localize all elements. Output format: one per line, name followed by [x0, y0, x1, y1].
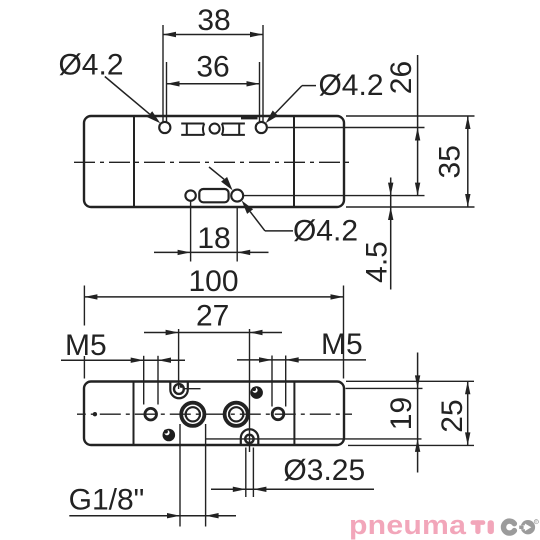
svg-text:pneuma: pneuma — [349, 511, 467, 540]
svg-text:G1/8": G1/8" — [69, 484, 145, 517]
svg-text:25: 25 — [436, 399, 469, 432]
svg-text:Ø4.2: Ø4.2 — [58, 49, 123, 82]
svg-text:27: 27 — [196, 300, 229, 333]
svg-text:18: 18 — [197, 222, 230, 255]
svg-text:35: 35 — [434, 145, 467, 178]
svg-text:M5: M5 — [321, 328, 363, 361]
svg-text:M5: M5 — [65, 329, 107, 362]
svg-text:4.5: 4.5 — [360, 241, 393, 283]
svg-text:19: 19 — [385, 397, 418, 430]
svg-text:36: 36 — [196, 51, 229, 84]
svg-text:26: 26 — [385, 61, 418, 94]
svg-text:100: 100 — [188, 265, 238, 298]
svg-text:Ø3.25: Ø3.25 — [283, 454, 365, 487]
svg-text:Ø4.2: Ø4.2 — [318, 69, 383, 102]
svg-text:38: 38 — [197, 4, 230, 37]
svg-text:Ø4.2: Ø4.2 — [293, 215, 358, 248]
